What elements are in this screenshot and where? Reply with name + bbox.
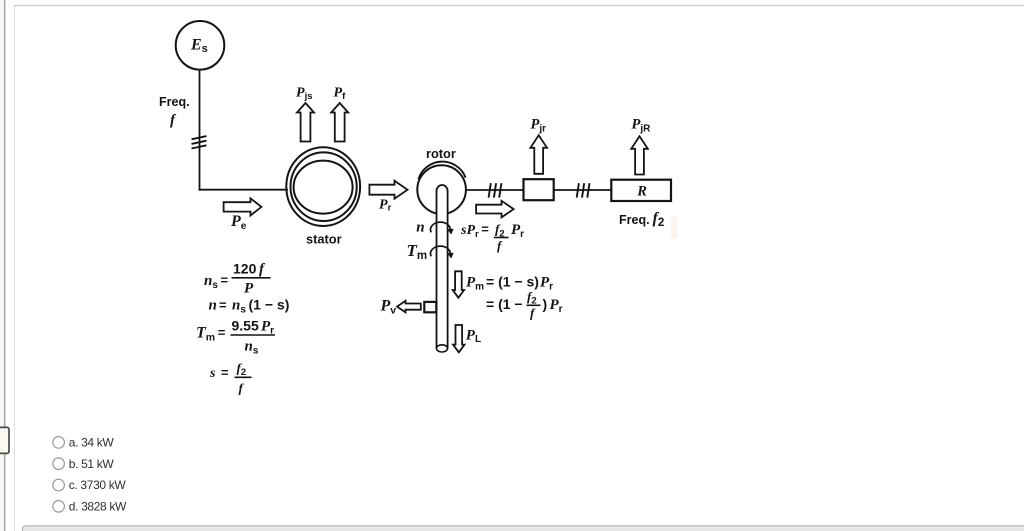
rotation arc Tm arrowhead <box>447 253 453 259</box>
stator coil outer turn <box>286 147 360 226</box>
svg-text:Pm: Pm <box>466 275 484 293</box>
svg-text:ns =: ns = <box>204 272 229 291</box>
svg-text:Freq.: Freq. <box>619 213 650 227</box>
arrow Pjr <box>530 135 547 174</box>
stator coil inner turn <box>294 161 353 214</box>
svg-text:= (1 −: = (1 − <box>486 296 523 312</box>
svg-text:P: P <box>244 281 254 297</box>
wire ticks after rotor <box>489 183 502 197</box>
svg-text:f2: f2 <box>237 360 247 378</box>
arrow Pr <box>369 181 407 199</box>
svg-text:=: = <box>219 298 227 313</box>
svg-text:rotor: rotor <box>426 146 456 161</box>
fraction bar (1-f2/f) <box>527 304 541 306</box>
fraction bar 9.55Pr/ns <box>231 334 276 336</box>
svg-text:Pe: Pe <box>230 213 247 232</box>
page left margin strip <box>0 0 4 531</box>
svg-text:f: f <box>259 262 266 278</box>
arrow Pf <box>331 103 348 142</box>
radio button c <box>53 479 65 491</box>
source Es circle <box>176 21 225 70</box>
svg-text:d. 3828 kW: d. 3828 kW <box>69 500 127 514</box>
content panel left border <box>14 5 16 531</box>
svg-text:R: R <box>636 184 647 200</box>
arrow Pe <box>224 198 262 215</box>
svg-text:f: f <box>239 381 245 396</box>
svg-text:ns: ns <box>245 339 259 357</box>
arrow Pjs <box>297 103 314 142</box>
rotor circle <box>417 165 466 214</box>
svg-text:PjR: PjR <box>632 116 652 134</box>
side tab handle <box>0 427 9 453</box>
radio button a <box>53 437 65 449</box>
wire gearbox to R box <box>554 189 612 191</box>
svg-text:Pjr: Pjr <box>531 116 547 134</box>
svg-text:= (1 − s): = (1 − s) <box>486 274 539 290</box>
svg-text:s: s <box>209 366 216 381</box>
svg-text:Pr: Pr <box>540 275 553 293</box>
svg-text:stator: stator <box>306 232 342 247</box>
arrow PL <box>453 325 464 352</box>
arrow sPr <box>476 201 513 218</box>
svg-text:Es: Es <box>190 36 208 55</box>
arrow Pm <box>453 271 464 297</box>
svg-text:Pr: Pr <box>550 297 563 315</box>
svg-text:Tm =: Tm = <box>196 325 226 344</box>
svg-text:): ) <box>543 296 548 312</box>
window divider line <box>4 0 6 531</box>
svg-text:120: 120 <box>233 261 257 277</box>
svg-text:f2: f2 <box>653 210 665 229</box>
radio button d <box>53 501 65 513</box>
svg-text:f: f <box>497 238 503 253</box>
svg-text:Pr: Pr <box>379 197 392 213</box>
svg-text:PL: PL <box>466 327 481 345</box>
arrow PjR <box>631 136 648 174</box>
svg-text:9.55: 9.55 <box>232 318 259 334</box>
svg-text:sPr =: sPr = <box>460 222 489 241</box>
svg-text:Freq.: Freq. <box>159 95 190 109</box>
supply frequency tick marks <box>192 136 207 148</box>
svg-text:ns: ns <box>232 298 246 316</box>
fraction bar f2/f <box>235 376 252 378</box>
content panel top border <box>14 5 1024 7</box>
rotation arc n arrowhead <box>447 229 453 235</box>
svg-text:a. 34 kW: a. 34 kW <box>69 436 115 450</box>
fraction bar 120f/P <box>232 277 271 279</box>
svg-text:Pjs: Pjs <box>296 86 313 103</box>
svg-text:Pr: Pr <box>511 222 524 240</box>
svg-text:f: f <box>530 306 536 321</box>
wire Es down to corner node <box>199 70 201 191</box>
radio button b <box>53 458 65 470</box>
svg-text:c. 3730 kW: c. 3730 kW <box>69 478 127 492</box>
shaft rod <box>437 185 448 348</box>
rotation arc n around shaft <box>430 222 450 232</box>
svg-text:Pf: Pf <box>334 86 347 103</box>
svg-text:f2: f2 <box>527 289 537 307</box>
svg-text:n: n <box>416 219 424 235</box>
stator coil middle turn <box>291 152 357 221</box>
svg-text:f: f <box>170 113 177 129</box>
highlight smudge <box>671 217 678 238</box>
svg-text:Tm: Tm <box>407 241 428 262</box>
svg-text:=: = <box>221 365 229 380</box>
fraction bar sPr f2/f <box>494 237 509 239</box>
bearing block on shaft <box>424 302 436 312</box>
shaft bottom end ellipse <box>436 345 447 352</box>
svg-text:b. 51 kW: b. 51 kW <box>69 457 115 471</box>
wire corner to stator <box>199 189 288 191</box>
rotor top arc <box>418 162 465 180</box>
svg-text:n: n <box>209 298 217 314</box>
svg-text:Pv: Pv <box>380 298 397 317</box>
arrow Pv <box>397 301 421 313</box>
rotation arc Tm around shaft <box>430 246 450 256</box>
resistor box R <box>611 180 671 201</box>
wire rotor to gearbox <box>467 189 524 191</box>
svg-text:Pr: Pr <box>261 319 274 337</box>
bottom toolbar box <box>23 526 1024 531</box>
svg-text:(1 − s): (1 − s) <box>249 297 290 313</box>
wire ticks before R box <box>577 183 590 197</box>
gearbox small box <box>524 179 554 200</box>
